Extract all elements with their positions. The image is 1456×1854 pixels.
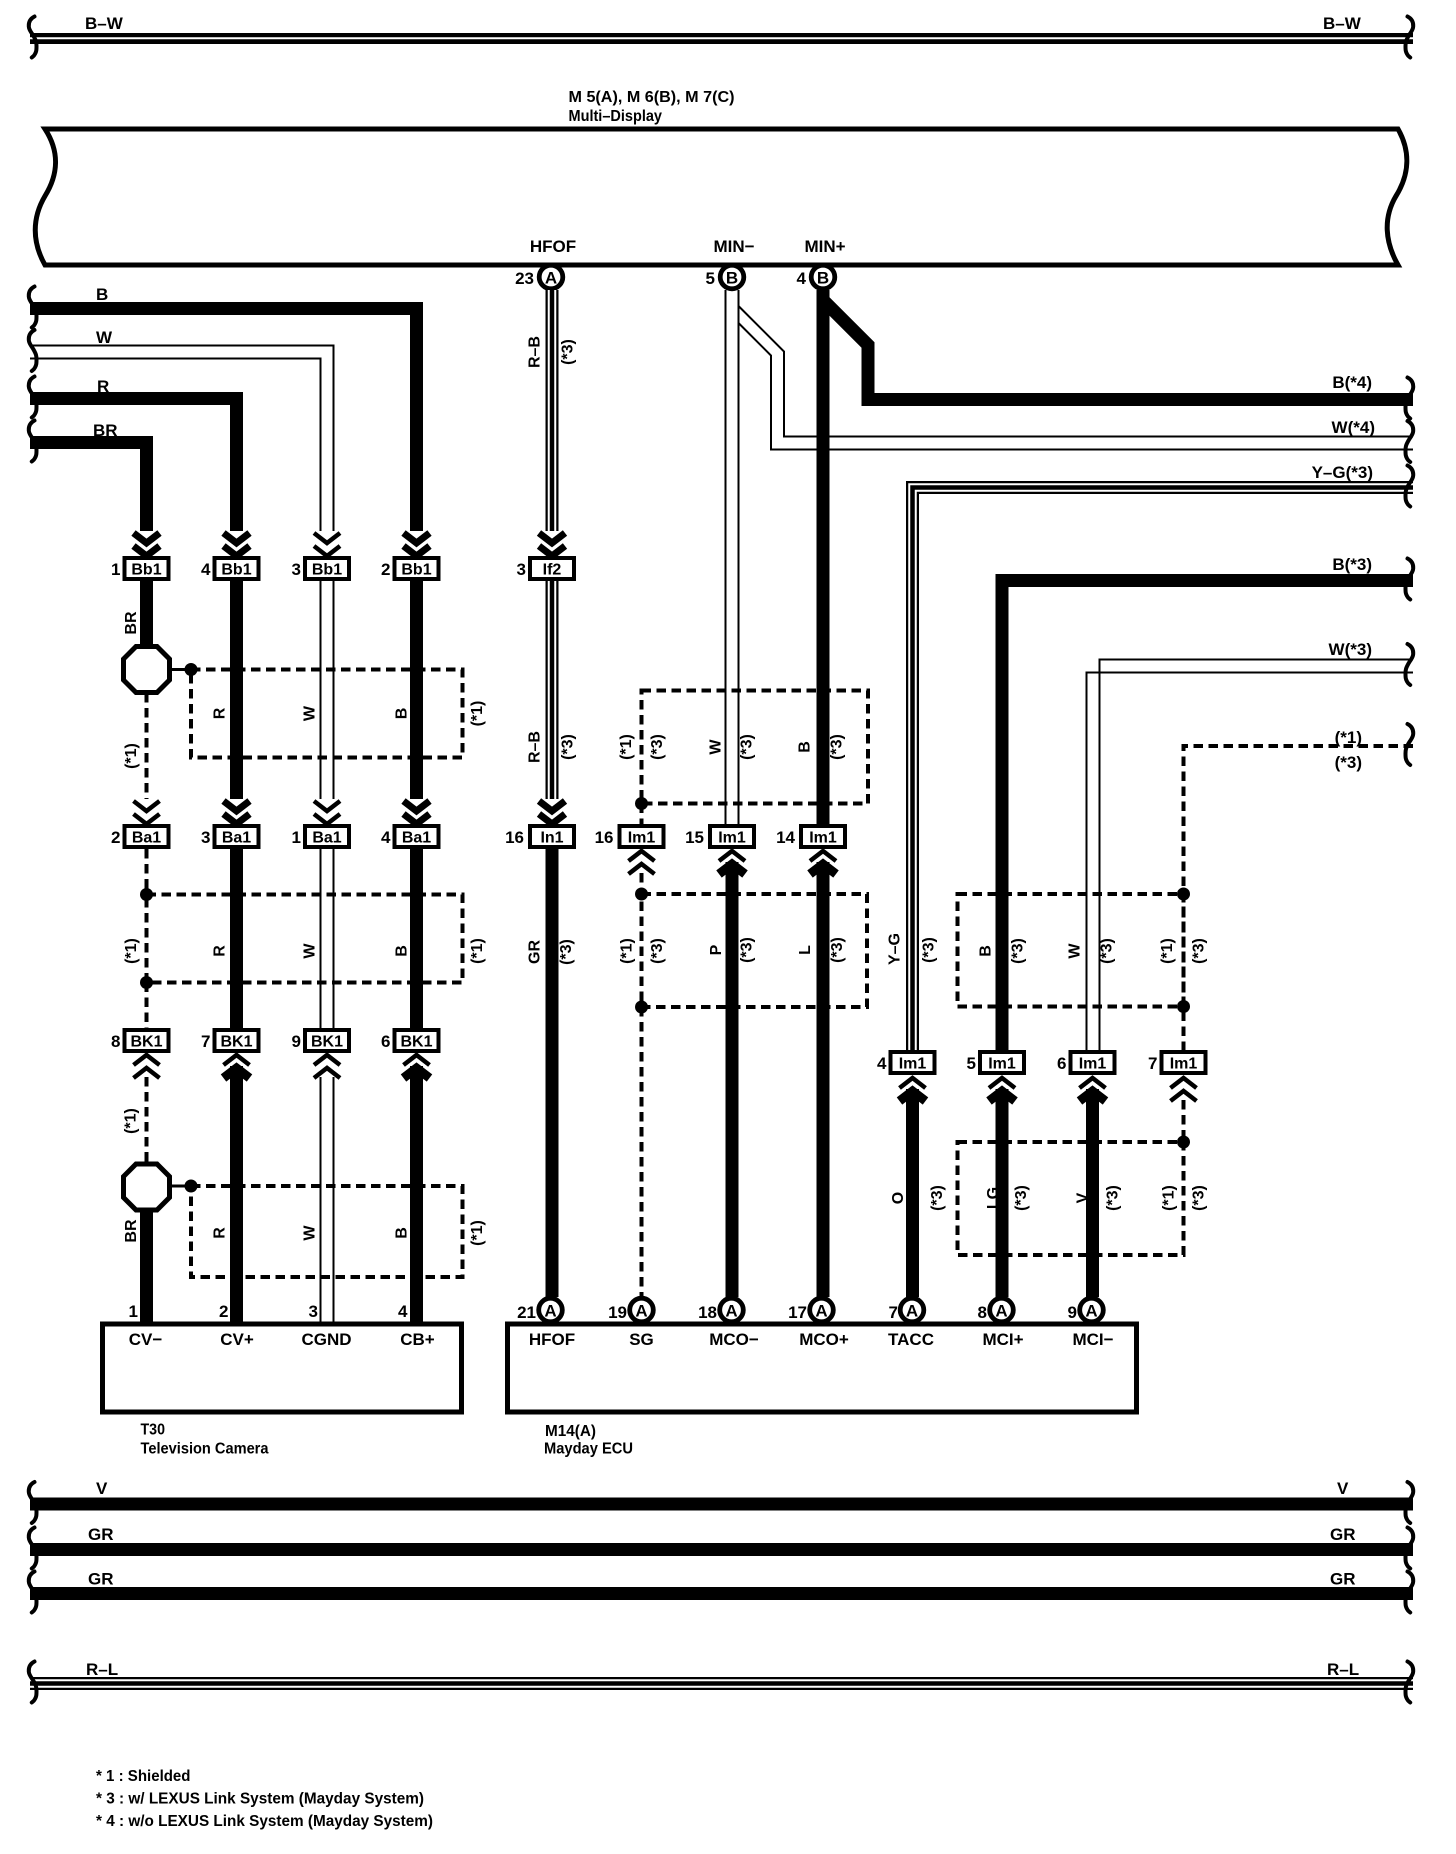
label (*1) right of lower-left shield (469, 1220, 486, 1246)
wire dashed (shield to ECU pin 19) (640, 1007, 644, 1297)
connector 2 Bb1 (381, 558, 438, 579)
svg-text:Bb1: Bb1 (131, 562, 161, 579)
svg-text:(*1): (*1) (619, 938, 636, 964)
svg-text:2: 2 (111, 828, 120, 847)
pin 4 connector B (Multi-Display MIN+) (797, 265, 835, 289)
svg-text:(*3): (*3) (1013, 1185, 1030, 1211)
svg-text:HFOF: HFOF (529, 1330, 575, 1349)
svg-text:W: W (302, 1225, 319, 1241)
pin label CB+ (400, 1330, 435, 1349)
svg-text:W: W (302, 705, 319, 721)
svg-text:(*3): (*3) (921, 937, 938, 963)
label M14(A) Mayday ECU (544, 1423, 633, 1458)
svg-text:BK1: BK1 (400, 1034, 432, 1051)
svg-text:3: 3 (517, 560, 526, 579)
note *3 w/ LEXUS Link System (96, 1791, 424, 1808)
wire break symbol BR left (29, 421, 37, 462)
svg-text:2: 2 (381, 560, 390, 579)
wire break symbol B(*4) right (1406, 378, 1414, 419)
svg-text:B(*3): B(*3) (1332, 555, 1372, 574)
wire break symbol B left (29, 287, 37, 328)
label Y-G vertical (887, 933, 938, 965)
pin label MCO- (709, 1330, 759, 1349)
svg-text:Im1: Im1 (1170, 1056, 1198, 1073)
label (*1) lower-right shield (1161, 1185, 1178, 1211)
label V lower-right shield (1075, 1192, 1092, 1203)
label (*1) BK1-octagon (123, 1108, 140, 1134)
wire break symbol B-W right (1406, 17, 1414, 58)
label R in middle-left shield (212, 945, 229, 957)
label Multi-Display title (569, 89, 735, 125)
svg-text:GR: GR (1330, 1570, 1356, 1589)
arrow out of 6 BK1 (404, 1055, 430, 1078)
connector 9 BK1 (292, 1030, 349, 1051)
shield box lower-right (958, 1142, 1184, 1255)
label B upper-middle shield (797, 741, 814, 753)
pin label MIN- (Multi-Display) (713, 237, 754, 256)
svg-text:5: 5 (706, 269, 715, 288)
wire BR (left feeder) (30, 443, 147, 532)
pin label MIN+ (Multi-Display) (804, 237, 845, 256)
pin label CGND (301, 1330, 351, 1349)
svg-text:6: 6 (381, 1032, 390, 1051)
wire B (left feeder) (30, 309, 417, 532)
svg-text:(*3): (*3) (1099, 938, 1116, 964)
svg-text:Im1: Im1 (988, 1056, 1016, 1073)
svg-text:Bb1: Bb1 (401, 562, 431, 579)
wire break symbol V right (1406, 1482, 1414, 1523)
svg-text:Ba1: Ba1 (132, 830, 161, 847)
node junction upper-right shield top (1177, 888, 1190, 901)
connector 2 Ba1 (111, 826, 168, 847)
svg-text:Ba1: Ba1 (312, 830, 341, 847)
svg-text:19: 19 (608, 1303, 627, 1322)
arrow into 3 If2 (539, 533, 565, 556)
svg-text:CV+: CV+ (220, 1330, 254, 1349)
label W upper-right shield (1067, 943, 1084, 959)
svg-text:Television Camera: Television Camera (141, 1441, 269, 1458)
shield box upper-middle (642, 691, 869, 804)
svg-text:A: A (906, 1301, 918, 1320)
svg-text:A: A (545, 268, 557, 287)
label V left (96, 1479, 108, 1498)
svg-text:1: 1 (129, 1302, 138, 1321)
component T30 Television Camera box (103, 1324, 462, 1412)
label W in middle-left shield (302, 943, 319, 959)
label T30 Television Camera (141, 1422, 269, 1458)
label W in upper-left shield (302, 705, 319, 721)
wire Y-G(*3) (909, 484, 1413, 1050)
svg-text:If2: If2 (543, 562, 562, 579)
connector 6 Im1 (1057, 1052, 1114, 1073)
svg-text:(*1): (*1) (123, 1108, 140, 1134)
arrow into 16 In1 (539, 801, 565, 824)
wire V bus (30, 1498, 1413, 1511)
connector 6 BK1 (381, 1030, 438, 1051)
svg-text:(*1): (*1) (1335, 728, 1362, 747)
svg-text:CB+: CB+ (400, 1330, 435, 1349)
connector 3 If2 (517, 558, 574, 579)
svg-text:MCO+: MCO+ (799, 1330, 849, 1349)
wire break symbol GR2 left (29, 1572, 37, 1613)
shield octagon upper (124, 647, 170, 693)
pin 5 connector B (Multi-Display MIN-) (706, 265, 744, 289)
label (*1) right of upper-left shield (469, 701, 486, 727)
label B(*4) (1332, 373, 1372, 392)
label R-B (*3) upper (527, 336, 577, 368)
wire B (Ba1 to BK1) (410, 849, 423, 1028)
shield octagon lower (124, 1164, 170, 1210)
connector 7 BK1 (201, 1030, 258, 1051)
svg-text:17: 17 (788, 1303, 807, 1322)
label B in middle-left shield (394, 945, 411, 957)
label R in upper-left shield (212, 707, 229, 719)
svg-text:In1: In1 (540, 830, 563, 847)
svg-text:R–L: R–L (1327, 1660, 1359, 1679)
wire (*1) dashed (octagon to Ba1) (145, 693, 149, 799)
svg-text:(*3): (*3) (829, 734, 846, 760)
connector 3 Bb1 (292, 558, 349, 579)
svg-text:Multi–Display: Multi–Display (569, 108, 663, 125)
svg-text:M 5(A), M 6(B), M 7(C): M 5(A), M 6(B), M 7(C) (569, 89, 735, 106)
connector 4 Im1 (877, 1052, 934, 1073)
label (*1) right (1335, 728, 1362, 747)
arrow into 2 Bb1 (404, 533, 430, 556)
svg-text:4: 4 (877, 1054, 887, 1073)
svg-text:B: B (96, 285, 108, 304)
svg-text:BR: BR (123, 1219, 140, 1243)
pin 8 connector A (ECU MCI+) (978, 1298, 1014, 1322)
wire R (BK1 to T30 pin 2) (230, 1066, 243, 1324)
label (*3) LG lower-right shield (1013, 1185, 1030, 1211)
label (*3) right upper-right shield (1191, 938, 1208, 964)
svg-text:23: 23 (515, 269, 534, 288)
svg-text:Bb1: Bb1 (312, 562, 342, 579)
wire break symbol R-L left (29, 1662, 37, 1703)
pin label TACC (888, 1330, 934, 1349)
svg-text:16: 16 (505, 828, 524, 847)
svg-text:W(*4): W(*4) (1332, 418, 1375, 437)
svg-text:W: W (96, 328, 113, 347)
wire octagon to junction (168, 668, 191, 671)
label (*1) upper-right shield (1159, 938, 1176, 964)
wire break symbol GR1 right (1406, 1528, 1414, 1569)
pin 1 T30 (129, 1302, 138, 1321)
node junction lower-left shield (185, 1180, 198, 1193)
label GR (*3) (527, 939, 576, 965)
svg-text:8: 8 (111, 1032, 120, 1051)
label W(*3) right (1329, 640, 1372, 659)
pin 23 connector A (Multi-Display HFOF) (515, 265, 563, 289)
arrow out of 14 Im1 (810, 851, 836, 874)
wire R (Ba1 to BK1) (230, 849, 243, 1028)
wire W (BK1 to T30 pin 3, hollow) (321, 1077, 334, 1324)
arrow into 3 Bb1 (314, 533, 340, 556)
svg-text:* 3 : w/ LEXUS Link System (Ma: * 3 : w/ LEXUS Link System (Mayday Syste… (96, 1791, 424, 1808)
wire W (Bb1 to Ba1, hollow) (321, 581, 334, 799)
svg-text:4: 4 (398, 1302, 408, 1321)
label BR upper (123, 611, 140, 635)
label (*3) lower-middle shield (649, 938, 666, 964)
svg-text:MIN+: MIN+ (804, 237, 845, 256)
wire (*1) dashed (Ba1 to shield) (145, 849, 149, 895)
arrow into 4 Bb1 (224, 533, 250, 556)
svg-text:B: B (797, 741, 814, 753)
wire W (left feeder, hollow) (30, 346, 334, 532)
svg-text:R: R (212, 707, 229, 719)
wire O (4 Im1 to ECU pin TACC) (906, 1089, 919, 1297)
connector 16 Im1 (595, 826, 664, 847)
node junction lower-right shield (1177, 1136, 1190, 1149)
svg-text:R–B: R–B (527, 731, 544, 763)
svg-text:(*3): (*3) (558, 939, 575, 965)
wire break symbol shield right (1406, 724, 1414, 765)
shield box (*1) lower-left (191, 1186, 463, 1277)
label (*1) octagon-Ba1 (123, 743, 140, 769)
wire break symbol W(*3) right (1406, 644, 1414, 685)
svg-text:18: 18 (698, 1303, 717, 1322)
label (*3) right lower-right shield (1191, 1185, 1208, 1211)
label GR 1 left (88, 1525, 114, 1544)
label (*1) left upper-middle shield (618, 734, 635, 760)
label B (left feeder) (96, 285, 108, 304)
wire break symbol V left (29, 1482, 37, 1523)
note *4 w/o LEXUS Link System (96, 1813, 433, 1830)
svg-text:CGND: CGND (301, 1330, 351, 1349)
arrow out of 8 BK1 (134, 1055, 160, 1078)
wire dashed (16 Im1 to shield) (640, 873, 644, 894)
svg-text:GR: GR (88, 1525, 114, 1544)
svg-text:3: 3 (292, 560, 301, 579)
svg-text:B: B (726, 268, 738, 287)
pin label SG (629, 1330, 654, 1349)
svg-text:3: 3 (309, 1302, 318, 1321)
label (*3) B upper-right shield (1010, 938, 1027, 964)
svg-text:(*3): (*3) (1191, 1185, 1208, 1211)
wire R-L bus (30, 1680, 1413, 1687)
label (*3) W upper-middle shield (739, 734, 756, 760)
label B in lower-left shield (394, 1227, 411, 1239)
svg-text:7: 7 (1148, 1054, 1157, 1073)
svg-text:Ba1: Ba1 (402, 830, 431, 847)
label R (left feeder) (97, 377, 109, 396)
connector 4 Bb1 (201, 558, 258, 579)
wire break symbol B(*3) right (1406, 559, 1414, 600)
pin 2 T30 (219, 1302, 228, 1321)
arrow out of 16 Im1 (629, 851, 655, 874)
label R-L right (1327, 1660, 1359, 1679)
svg-text:BK1: BK1 (130, 1034, 162, 1051)
svg-text:R–L: R–L (86, 1660, 118, 1679)
connector 5 Im1 (967, 1052, 1024, 1073)
svg-text:B: B (817, 268, 829, 287)
svg-text:B(*4): B(*4) (1332, 373, 1372, 392)
svg-text:V: V (96, 1479, 108, 1498)
svg-text:Im1: Im1 (809, 830, 837, 847)
wire R-B (HFOF to If2) (549, 290, 556, 531)
svg-text:(*3): (*3) (1191, 938, 1208, 964)
svg-text:BK1: BK1 (311, 1034, 343, 1051)
arrow out of 6 Im1 (1080, 1078, 1106, 1101)
svg-text:GR: GR (527, 940, 544, 964)
label Y-G(*3) right (1312, 463, 1373, 482)
wire B (Bb1 to Ba1) (410, 581, 423, 799)
pin 4 T30 (398, 1302, 408, 1321)
label O (*3) (890, 1185, 946, 1211)
wire break symbol B-W left (29, 17, 37, 58)
svg-text:Im1: Im1 (718, 830, 746, 847)
svg-text:(*1): (*1) (1161, 1185, 1178, 1211)
pin label MCO+ (799, 1330, 849, 1349)
pin label HFOF (Multi-Display) (530, 237, 576, 256)
arrow into 1 Bb1 (134, 533, 160, 556)
pin label MCI- (1072, 1330, 1113, 1349)
connector 3 Ba1 (201, 826, 258, 847)
svg-text:16: 16 (595, 828, 614, 847)
label LG lower-right shield (985, 1187, 1002, 1209)
svg-text:(*1): (*1) (618, 734, 635, 760)
wire P (15 Im1 to ECU pin 18) (726, 862, 739, 1297)
label (*3) W upper-right shield (1099, 938, 1116, 964)
svg-text:21: 21 (517, 1303, 536, 1322)
svg-text:W: W (708, 739, 725, 755)
svg-text:(*1): (*1) (123, 938, 140, 964)
node junction upper-right shield bottom (1177, 1000, 1190, 1013)
label B(*3) right (1332, 555, 1372, 574)
wire shield (*1)(*3) dashed (1184, 746, 1414, 1050)
pin 9 connector A (ECU MCI-) (1068, 1298, 1104, 1322)
label (*3) V lower-right shield (1105, 1185, 1122, 1211)
wire L (14 Im1 to ECU pin 17) (817, 862, 830, 1297)
label (*3) right (1335, 753, 1362, 772)
wire W(*4) branch (hollow) (739, 306, 1414, 450)
pin 19 connector A (ECU SG) (608, 1298, 653, 1322)
wire break symbol W left (29, 330, 37, 371)
label P lower-middle shield (708, 944, 725, 955)
label V right (1337, 1479, 1349, 1498)
label B in upper-left shield (394, 708, 411, 720)
label W upper-middle shield (708, 739, 725, 755)
label BR (left feeder) (93, 421, 118, 440)
label W (left feeder) (96, 328, 113, 347)
arrow out of 7 BK1 (224, 1055, 250, 1078)
label (*1) right of middle-left shield (469, 938, 486, 964)
svg-text:MCI+: MCI+ (982, 1330, 1023, 1349)
node junction middle-left shield top (140, 888, 153, 901)
svg-text:W: W (1067, 943, 1084, 959)
svg-text:4: 4 (201, 560, 211, 579)
label (*1) left lower-middle shield (619, 938, 636, 964)
svg-text:Bb1: Bb1 (221, 562, 251, 579)
svg-text:B–W: B–W (85, 14, 124, 33)
svg-text:B: B (394, 945, 411, 957)
pin 17 connector A (ECU MCO+) (788, 1298, 833, 1322)
svg-text:Y–G(*3): Y–G(*3) (1312, 463, 1373, 482)
wire B (MIN+ vertical) (817, 290, 830, 824)
wire GR (In1 to ECU pin 21) (546, 849, 559, 1297)
wire (*1) dashed (BK1 to octagon) (145, 1077, 149, 1163)
svg-text:A: A (815, 1301, 827, 1320)
svg-text:GR: GR (1330, 1525, 1356, 1544)
svg-text:A: A (725, 1301, 737, 1320)
wire BR (Bb1 to shield octagon) (140, 581, 153, 648)
wire break symbol R-L right (1406, 1662, 1414, 1703)
connector 1 Bb1 (111, 558, 168, 579)
wire V (6 Im1 to ECU pin MCI-) (1086, 1089, 1099, 1297)
connector 4 Ba1 (381, 826, 438, 847)
svg-text:Mayday ECU: Mayday ECU (544, 1441, 633, 1458)
label B-W right (1323, 14, 1362, 33)
svg-text:(*3): (*3) (649, 734, 666, 760)
pin 18 connector A (ECU MCO-) (698, 1298, 743, 1322)
svg-text:4: 4 (381, 828, 391, 847)
svg-text:* 4 : w/o LEXUS Link System (M: * 4 : w/o LEXUS Link System (Mayday Syst… (96, 1813, 433, 1830)
svg-text:B: B (394, 708, 411, 720)
label W(*4) (1332, 418, 1375, 437)
label R in lower-left shield (212, 1227, 229, 1239)
svg-text:L: L (797, 945, 814, 955)
svg-text:1: 1 (292, 828, 301, 847)
wire W(*3) (hollow) (1087, 660, 1414, 1051)
svg-text:A: A (1085, 1301, 1097, 1320)
svg-text:5: 5 (967, 1054, 976, 1073)
svg-text:A: A (544, 1301, 556, 1320)
svg-text:7: 7 (889, 1303, 898, 1322)
arrow out of 15 Im1 (719, 851, 745, 874)
pin label CV- (129, 1330, 163, 1349)
svg-text:3: 3 (201, 828, 210, 847)
svg-text:(*3): (*3) (560, 339, 577, 365)
svg-text:SG: SG (629, 1330, 654, 1349)
wire octagon2 to junction (168, 1185, 191, 1188)
node junction middle-left shield bottom (140, 976, 153, 989)
wire R (Bb1 to Ba1) (230, 581, 243, 799)
wire break symbol Y-G right (1406, 466, 1414, 507)
connector 1 Ba1 (292, 826, 349, 847)
svg-text:R: R (212, 945, 229, 957)
label (*3) upper-middle shield (649, 734, 666, 760)
svg-text:A: A (635, 1301, 647, 1320)
svg-text:15: 15 (685, 828, 704, 847)
label R-L left (86, 1660, 118, 1679)
svg-text:14: 14 (776, 828, 795, 847)
wire GR bus 1 (30, 1543, 1413, 1556)
wire dashed (shield to 16 Im1) (640, 804, 644, 825)
arrow out of 7 Im1 (1171, 1078, 1197, 1101)
svg-text:HFOF: HFOF (530, 237, 576, 256)
svg-text:Im1: Im1 (628, 830, 656, 847)
label GR 2 right (1330, 1570, 1356, 1589)
wire B (BK1 to T30 pin 4) (410, 1066, 423, 1324)
svg-text:V: V (1337, 1479, 1349, 1498)
note *1 Shielded (96, 1768, 191, 1785)
svg-text:1: 1 (111, 560, 120, 579)
wire break symbol GR1 left (29, 1528, 37, 1569)
label (*3) B upper-middle shield (829, 734, 846, 760)
svg-text:TACC: TACC (888, 1330, 934, 1349)
label R-B (*3) lower (527, 731, 577, 763)
wire W (Ba1 to BK1, hollow) (321, 849, 334, 1028)
svg-text:8: 8 (978, 1303, 987, 1322)
pin label HFOF (ECU) (529, 1330, 575, 1349)
arrow out of 5 Im1 (989, 1078, 1015, 1101)
svg-text:(*3): (*3) (739, 937, 756, 963)
svg-text:(*3): (*3) (1010, 938, 1027, 964)
svg-text:(*1): (*1) (469, 1220, 486, 1246)
arrow into 1 Ba1 (314, 801, 340, 824)
node junction lower-middle shield bottom (635, 1001, 648, 1014)
wire W (MIN- vertical, hollow) (726, 290, 739, 824)
